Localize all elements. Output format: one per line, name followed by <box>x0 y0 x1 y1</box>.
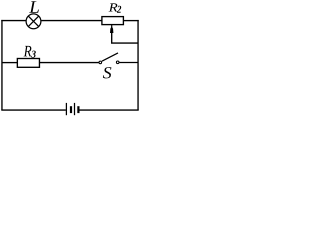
battery cell 1 long plate <box>65 103 67 115</box>
wire: rheostat slider to right rail <box>112 33 138 44</box>
wire: bottom segment right of battery <box>79 109 138 111</box>
label S <box>103 67 112 78</box>
battery cell 2 long plate <box>74 103 76 115</box>
wire: middle segment from left rail to R3 <box>2 62 17 64</box>
wire: bottom segment left of battery <box>1 109 66 111</box>
wire: switch right contact to right rail <box>119 62 138 64</box>
label R3 <box>24 46 32 57</box>
wire: lamp to rheostat R2 <box>41 20 102 22</box>
label L <box>29 1 39 13</box>
lamp L (circle with cross) <box>26 14 41 29</box>
switch S: right contact <box>116 61 119 64</box>
wire: R2 right terminal to top-right corner <box>123 20 138 22</box>
switch S: left contact <box>99 61 102 64</box>
battery cell 2 short plate <box>77 106 79 113</box>
rheostat slider arrow stem <box>111 25 113 28</box>
resistor R2 (rheostat body) <box>102 17 124 25</box>
rheostat slider arrow head <box>110 26 113 33</box>
battery cell 1 short plate <box>70 106 72 113</box>
wire: left rail <box>1 20 3 110</box>
wire: right rail <box>137 20 139 110</box>
label R2 <box>109 3 118 11</box>
resistor R3 <box>17 59 39 68</box>
switch S: blade <box>102 53 118 61</box>
wire: R3 to switch left contact <box>39 62 98 64</box>
wire: top segment from left corner to lamp <box>1 20 26 22</box>
